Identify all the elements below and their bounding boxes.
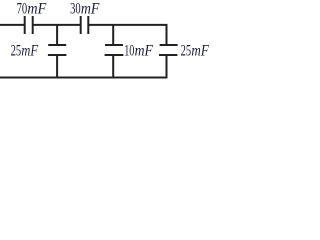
label 25mF right — [181, 43, 209, 60]
capacitor C4 10mF plates — [105, 45, 124, 55]
svg-text:mF: mF — [21, 43, 38, 60]
svg-text:10: 10 — [124, 43, 134, 60]
wire C2 to top-right corner — [89, 24, 167, 26]
svg-text:25: 25 — [11, 43, 22, 60]
wire branch1 bottom lead — [56, 55, 58, 78]
wire bottom — [0, 77, 167, 79]
label 30mF — [70, 1, 99, 18]
svg-text:mF: mF — [81, 1, 100, 18]
svg-text:70: 70 — [17, 1, 28, 18]
svg-text:mF: mF — [27, 1, 46, 18]
wire top-left segment — [0, 24, 24, 26]
label 70mF — [17, 1, 47, 18]
svg-text:30: 30 — [70, 1, 81, 18]
wire branch3 bottom lead — [166, 55, 168, 78]
wire branch2 bottom lead — [112, 55, 114, 78]
label 25mF left — [11, 43, 39, 60]
svg-text:mF: mF — [191, 43, 209, 60]
capacitor C3 25mF plates — [48, 45, 67, 55]
capacitor C5 25mF plates — [159, 45, 178, 55]
svg-text:25: 25 — [181, 43, 192, 60]
wire branch3 top lead (right side) — [166, 24, 168, 45]
svg-text:mF: mF — [135, 43, 153, 60]
wire branch1 top lead — [56, 25, 58, 45]
label 10mF — [124, 43, 153, 60]
wire branch2 top lead — [112, 25, 114, 45]
capacitor C1 70mF plates — [25, 16, 33, 34]
capacitor C2 30mF plates — [81, 16, 89, 34]
wire between C1 and C2 — [34, 24, 81, 26]
